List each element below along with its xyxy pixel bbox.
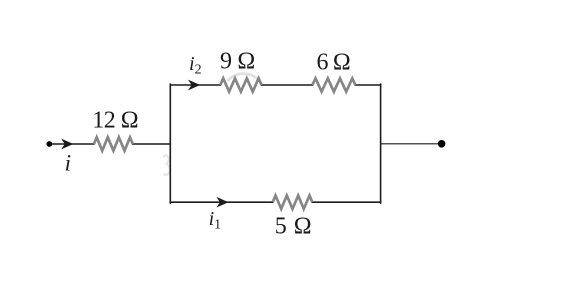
svg-text:12 Ω: 12 Ω (92, 108, 138, 134)
svg-text:5 Ω: 5 Ω (275, 213, 312, 239)
svg-text:9 Ω: 9 Ω (220, 49, 255, 75)
svg-text:6 Ω: 6 Ω (317, 49, 350, 75)
svg-text:i: i (65, 151, 71, 176)
